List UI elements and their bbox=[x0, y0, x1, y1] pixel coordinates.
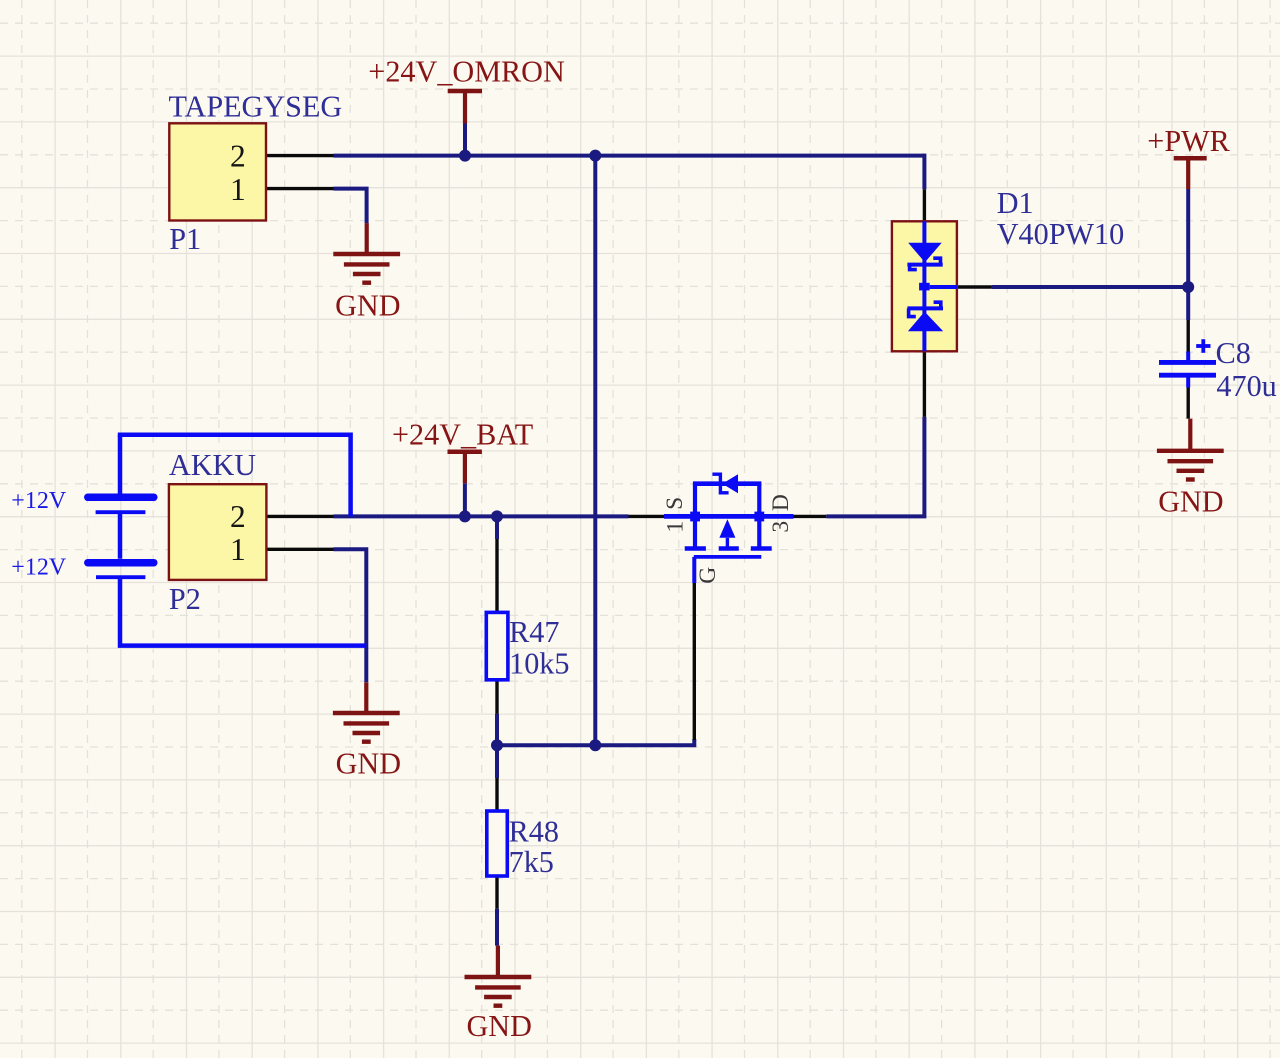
svg-text:GND: GND bbox=[335, 289, 400, 323]
svg-text:+PWR: +PWR bbox=[1147, 124, 1230, 158]
svg-text:7k5: 7k5 bbox=[509, 845, 554, 879]
svg-text:R47: R47 bbox=[509, 615, 559, 649]
svg-text:C8: C8 bbox=[1216, 336, 1251, 370]
svg-text:GND: GND bbox=[336, 746, 401, 780]
svg-text:10k5: 10k5 bbox=[509, 646, 569, 680]
svg-text:TAPEGYSEG: TAPEGYSEG bbox=[169, 90, 343, 124]
svg-text:G: G bbox=[695, 567, 721, 584]
svg-text:1: 1 bbox=[230, 172, 246, 207]
svg-text:P2: P2 bbox=[169, 582, 201, 616]
svg-text:GND: GND bbox=[1158, 485, 1223, 519]
svg-text:+24V_OMRON: +24V_OMRON bbox=[368, 55, 565, 89]
svg-text:S: S bbox=[662, 497, 688, 510]
svg-text:+12V: +12V bbox=[11, 488, 67, 514]
svg-text:GND: GND bbox=[467, 1009, 532, 1043]
svg-text:1: 1 bbox=[663, 521, 689, 533]
svg-text:+24V_BAT: +24V_BAT bbox=[392, 418, 533, 452]
svg-text:1: 1 bbox=[230, 532, 246, 567]
svg-text:2: 2 bbox=[230, 138, 246, 173]
svg-text:V40PW10: V40PW10 bbox=[997, 217, 1124, 251]
svg-text:R48: R48 bbox=[509, 815, 559, 849]
svg-text:+12V: +12V bbox=[11, 555, 67, 581]
svg-text:D: D bbox=[768, 494, 794, 511]
svg-text:470u: 470u bbox=[1216, 369, 1276, 403]
svg-text:P1: P1 bbox=[169, 222, 201, 256]
svg-text:2: 2 bbox=[230, 499, 246, 534]
svg-text:3: 3 bbox=[768, 521, 794, 533]
svg-text:D1: D1 bbox=[997, 186, 1034, 220]
svg-text:AKKU: AKKU bbox=[169, 448, 256, 482]
